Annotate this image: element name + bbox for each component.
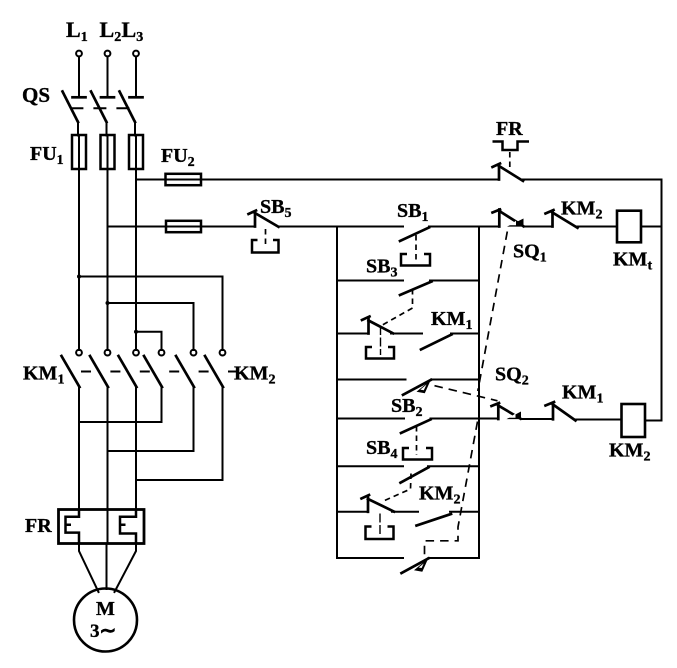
pushbutton SB3 NO contact	[400, 281, 479, 296]
compound NC row7 button bracket	[366, 527, 394, 540]
wire control top line left	[136, 179, 499, 181]
wire SQ2 to KM1 NC	[521, 418, 553, 420]
contact KM1 aux NO	[421, 334, 479, 350]
svg-text:SQ1: SQ1	[513, 241, 547, 266]
switch QS pole 2	[91, 92, 114, 136]
svg-text:FU2: FU2	[161, 145, 195, 170]
svg-text:3∼: 3∼	[90, 620, 116, 642]
svg-text:FU1: FU1	[30, 143, 64, 168]
wire SB5 to ladder	[279, 226, 404, 228]
svg-text:KM2: KM2	[419, 483, 460, 508]
svg-text:KM2: KM2	[561, 198, 602, 223]
compound NC row3 button bracket	[366, 347, 394, 359]
fuse FU1 pole 2	[101, 135, 115, 169]
fuse FU2 upper	[166, 174, 202, 185]
junction phase C crossover	[134, 330, 138, 334]
svg-text:SQ2: SQ2	[495, 364, 529, 389]
interlock KM2 NC contact	[546, 210, 578, 228]
thermal relay FR NC contact	[493, 164, 524, 181]
pushbutton SB2 actuator dashed	[416, 426, 418, 455]
pushbutton SB2 button bracket	[403, 448, 432, 460]
fuse FU2 lower	[166, 221, 201, 232]
wire crossover phase C to pole 4	[136, 332, 162, 350]
contactor main pole 4	[144, 350, 164, 422]
wire phase A vertical	[78, 169, 80, 350]
svg-text:KMt: KMt	[613, 249, 652, 274]
contactor main pole 2	[90, 350, 110, 510]
wire phase B through FR box	[107, 510, 109, 544]
pushbutton SB4 NO contact	[401, 466, 480, 482]
interlock KM1 NC contact	[546, 402, 576, 421]
svg-text:L2: L2	[100, 17, 122, 45]
ladder left rail	[336, 227, 338, 559]
linkage dashed SQ2 down to row8 arrow	[425, 422, 478, 557]
wire row7 middle	[392, 511, 418, 513]
compound NC contact row7	[362, 495, 395, 512]
thermal relay FR symbol	[493, 142, 530, 151]
pushbutton SB3 linkage dashed	[382, 289, 413, 326]
contact KM2 aux NO	[417, 512, 480, 526]
thermal relay FR heater 2	[120, 510, 136, 544]
terminal L3	[133, 51, 139, 57]
pushbutton SB4 linkage dashed	[384, 474, 412, 502]
wire row8 bottom left	[337, 557, 403, 559]
wire crossover phase A to pole 6	[79, 277, 223, 351]
wire KM1 NC to coil KM2	[576, 419, 622, 421]
ladder right rail	[478, 227, 480, 559]
limit-linked contact row8 blade with arrow	[402, 558, 480, 573]
wire row2 left	[337, 280, 403, 282]
coil KMt	[617, 211, 641, 243]
contactor main linkage dashed	[81, 371, 238, 373]
wire pole 6 output to phase C	[136, 479, 223, 481]
svg-text:KM1: KM1	[562, 382, 603, 407]
svg-text:FR: FR	[25, 515, 52, 537]
wire FR to motor middle	[106, 544, 108, 590]
svg-text:SB4: SB4	[366, 437, 397, 462]
coil KM2	[622, 404, 646, 437]
wire row4 left	[337, 379, 406, 381]
wire KM2 NC to coil KMt	[578, 226, 618, 228]
pushbutton SB1 button bracket	[401, 254, 430, 266]
contactor main pole 6	[205, 350, 225, 480]
svg-text:KM2: KM2	[234, 363, 275, 388]
pushbutton SB2 NO contact	[401, 419, 479, 434]
pushbutton SB5 NC contact	[249, 211, 279, 227]
wire rail to SQ2	[479, 418, 498, 420]
linkage dashed row4 arrow to SQ2	[435, 386, 498, 401]
terminal L1	[76, 51, 82, 57]
wire row5 left	[337, 418, 404, 420]
wire SQ1 to KM2 NC	[524, 226, 553, 228]
wire coil KM2 to right edge	[645, 420, 662, 422]
limit switch SQ1 NC contact	[493, 210, 524, 227]
wire top line right of FR	[523, 179, 662, 181]
wire row3 middle	[391, 333, 422, 335]
wire row7 left	[337, 511, 368, 513]
contactor main pole 3	[119, 350, 139, 510]
junction phase B crossover	[106, 301, 110, 305]
fuse FU1 pole 1	[72, 135, 86, 169]
wire right edge vertical	[661, 180, 663, 421]
wire row6 left	[337, 465, 403, 467]
wire row3 left	[337, 333, 369, 335]
wire L3 to QS	[135, 57, 137, 97]
svg-text:SB1: SB1	[397, 200, 428, 225]
svg-text:KM1: KM1	[431, 308, 472, 333]
limit switch SQ2 NC contact	[492, 403, 522, 419]
wire pole 4 output to phase A	[79, 421, 162, 423]
contactor main pole 1	[62, 350, 82, 510]
wire FR to motor left	[79, 544, 99, 593]
linkage dashed SQ1 down	[478, 232, 508, 392]
svg-text:KM2: KM2	[609, 440, 650, 465]
wire row1 rail to SQ1	[479, 226, 499, 228]
wire phase B vertical	[107, 169, 109, 350]
wire coil KMt to right edge	[641, 226, 662, 228]
wire pole 5 output to phase B	[108, 450, 194, 452]
svg-text:KM1: KM1	[23, 363, 64, 388]
thermal relay FR box	[59, 510, 145, 544]
wire phase C vertical	[135, 169, 137, 350]
svg-text:FR: FR	[496, 118, 523, 140]
svg-text:QS: QS	[22, 83, 50, 107]
compound NC row7 actuator line	[379, 514, 381, 536]
switch QS pole 1	[63, 92, 86, 136]
switch QS pole 3	[120, 92, 143, 136]
pushbutton SB5 button bracket	[252, 240, 279, 253]
svg-text:L1: L1	[66, 17, 88, 45]
terminal L2	[105, 51, 111, 57]
svg-text:SB3: SB3	[366, 256, 397, 281]
thermal relay FR actuator dashed	[509, 152, 511, 168]
compound NC contact row3	[362, 317, 393, 334]
wire L2 to QS	[107, 57, 109, 97]
motor M circle	[74, 589, 137, 652]
junction phase A crossover	[77, 275, 81, 279]
svg-text:SB2: SB2	[391, 395, 422, 420]
fuse FU1 pole 3	[129, 135, 143, 169]
pushbutton SB1 actuator dashed	[415, 235, 417, 261]
wire crossover phase B to pole 5	[108, 303, 194, 350]
thermal relay FR heater 1	[66, 510, 80, 544]
pushbutton SB1 NO contact	[400, 227, 479, 242]
switch QS linkage dashed	[70, 107, 131, 109]
limit-linked contact row4 blade with arrow	[403, 380, 479, 395]
svg-text:M: M	[96, 598, 115, 620]
compound NC row3 actuator line	[380, 326, 382, 355]
pushbutton SB5 actuator dashed	[265, 229, 267, 248]
wire L1 to QS	[78, 57, 80, 97]
wire control second line left	[108, 226, 256, 228]
wire FR to motor right	[115, 544, 137, 593]
svg-text:L3: L3	[122, 17, 144, 45]
contactor main pole 5	[176, 350, 196, 451]
